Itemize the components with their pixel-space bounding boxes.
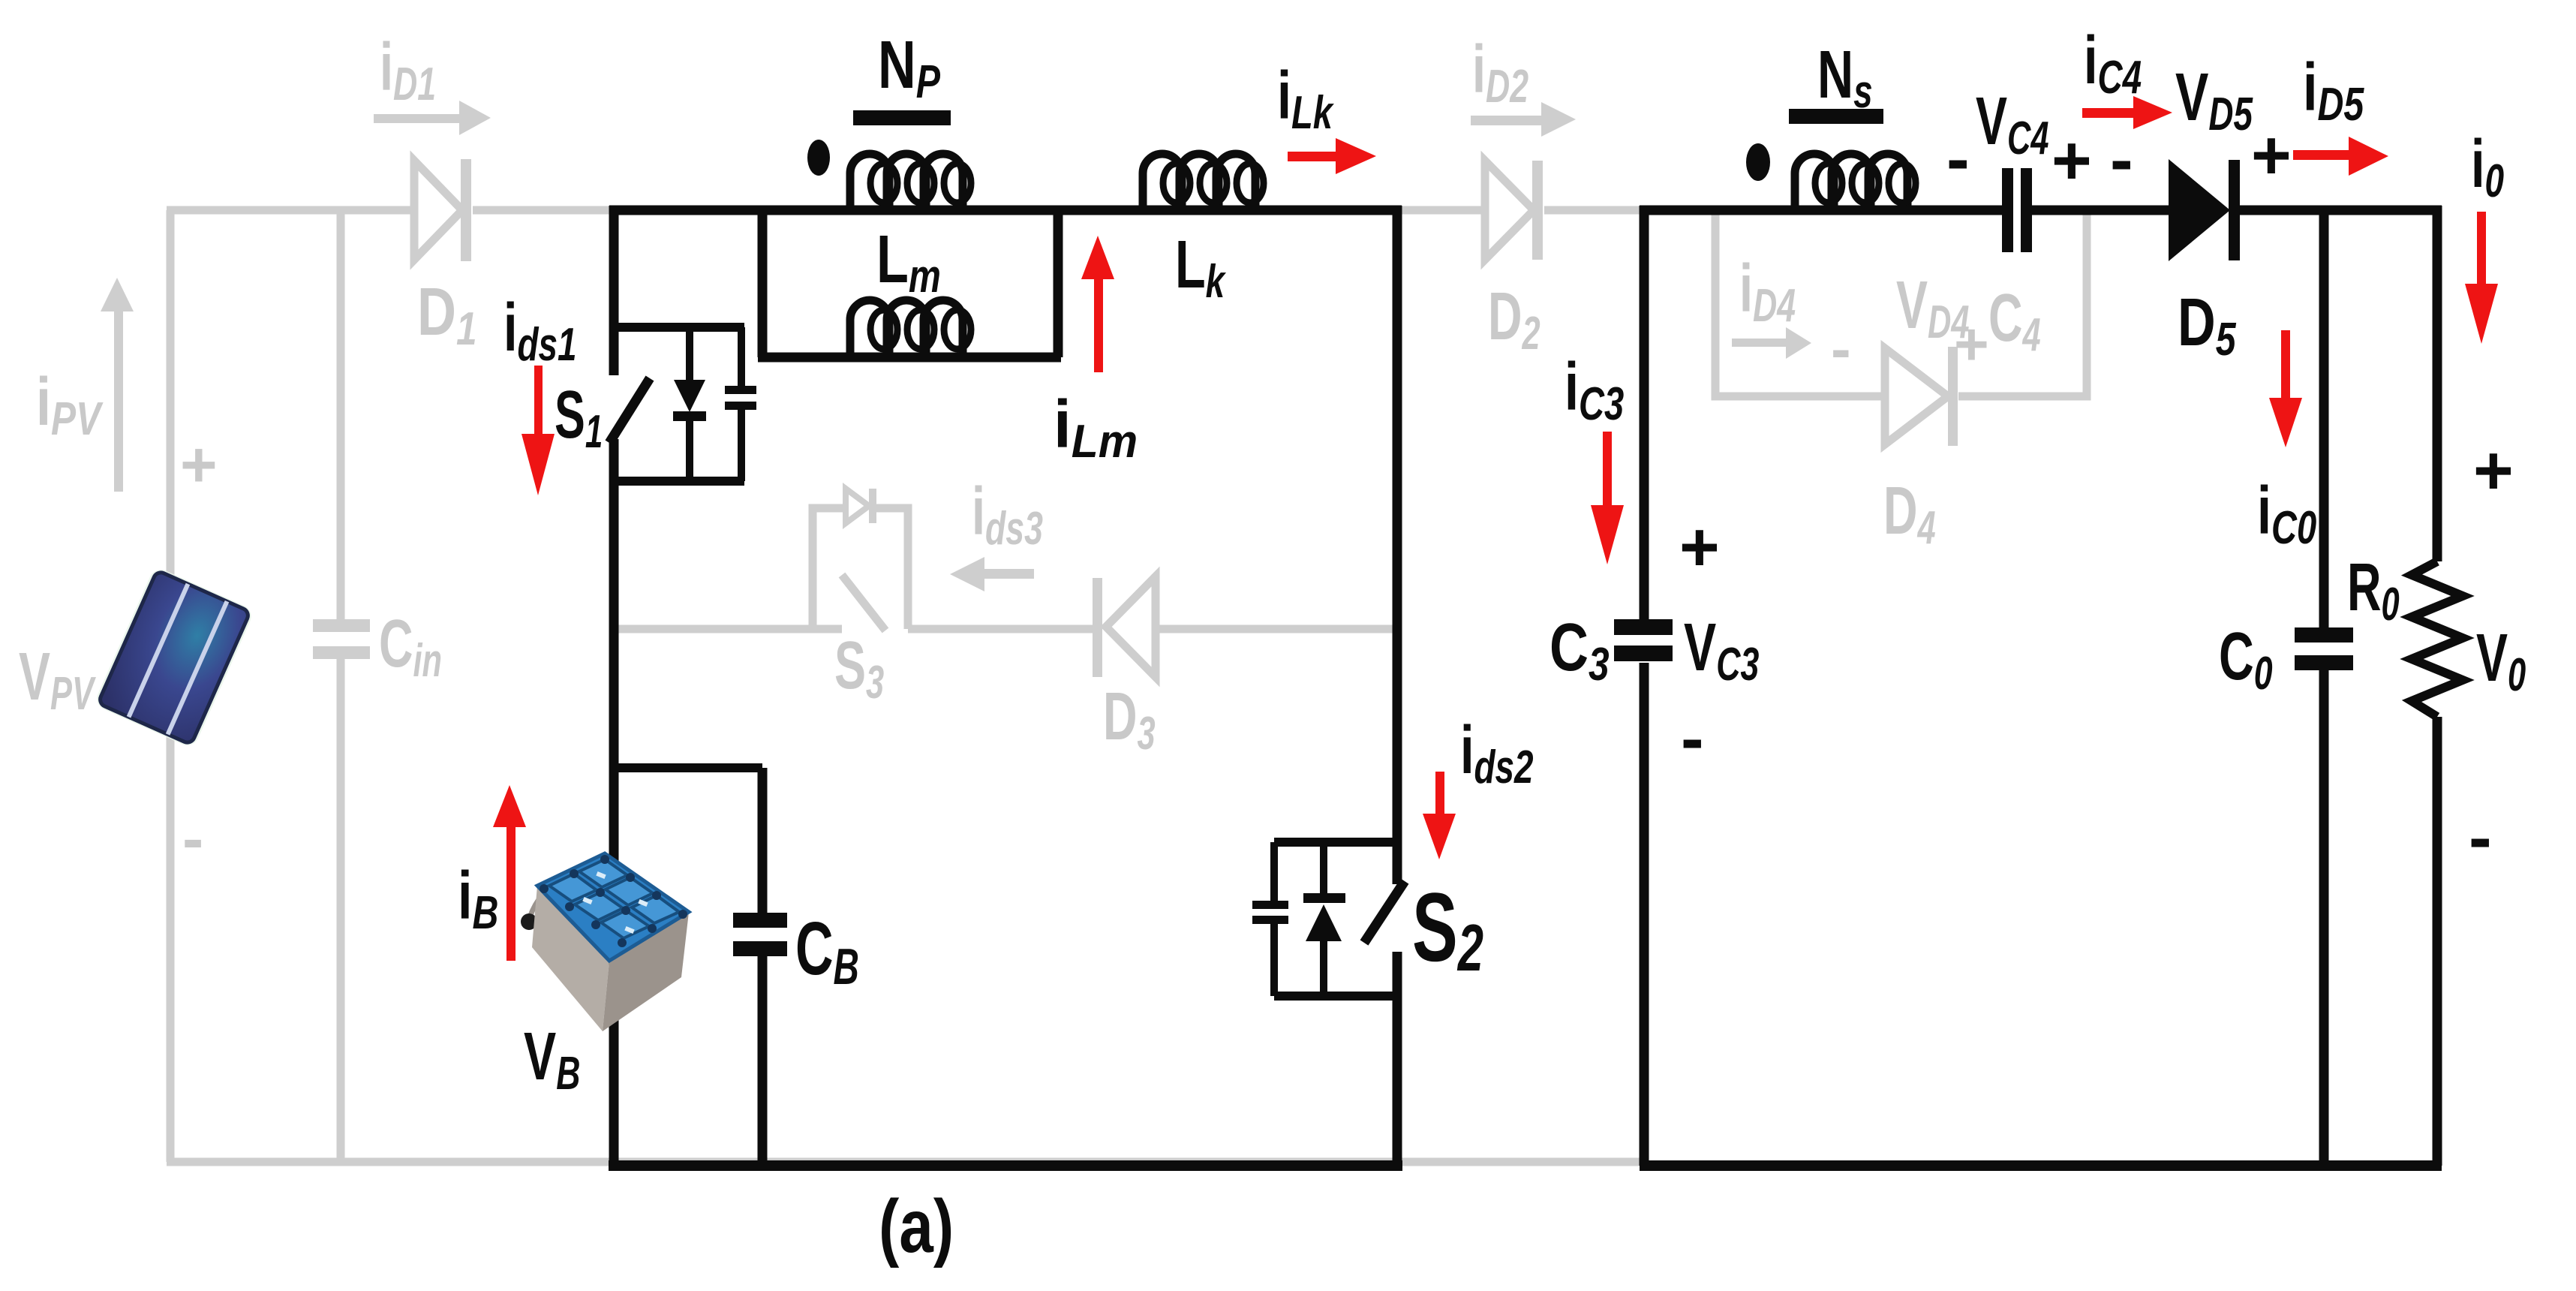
capacitor Cin plates [313, 619, 370, 659]
wire: output right rail bottom [2433, 717, 2442, 1166]
diode D5 [2169, 159, 2240, 261]
diode of S1 (body diode) [673, 327, 706, 481]
label VD5 [2175, 59, 2253, 140]
label io [2471, 125, 2504, 206]
wire: top gray link (D2 to C3 rail) [1544, 206, 1644, 215]
diode D3 (pointing left) [1093, 576, 1156, 677]
wire: S1 snubber box top and bottom bars [614, 327, 744, 481]
arrow: ids1 current arrow (red, down) [522, 366, 555, 495]
wire: gray bottom return bus [167, 1158, 1644, 1166]
capacitor C4 plates [2002, 168, 2032, 252]
label iD2 [1472, 32, 1528, 113]
diode of S3 (small, on box top bar) [846, 489, 876, 523]
wire: C3 rail top [1640, 206, 1649, 621]
label VC4 [1976, 84, 2048, 164]
label ids2 [1460, 712, 1534, 793]
label Lm [876, 222, 941, 302]
switch S1 blade [609, 378, 650, 443]
label CB [795, 907, 859, 995]
label Cin [379, 606, 442, 687]
wire: secondary bottom bus [1640, 1160, 2442, 1171]
label S3 [834, 628, 884, 709]
capacitor Co leads [2319, 210, 2329, 1166]
photo: PV panel (VPV source) [93, 566, 255, 749]
label S2 [1412, 872, 1483, 986]
label iLk [1277, 58, 1334, 139]
inductor Lk coil [1143, 154, 1264, 208]
svg-text:-: - [1681, 700, 1704, 777]
caption (a) [879, 1184, 954, 1268]
arrow: ico current arrow (red, down) [2269, 330, 2302, 447]
capacitor CB leads [758, 768, 768, 1166]
wire: secondary top bus (C3 to C4) [1640, 206, 2002, 215]
label Np [878, 28, 941, 108]
capacitor Co plates [2295, 627, 2353, 670]
resistor Ro [2412, 561, 2463, 717]
wire: middle gray bus (S3 to D3) [908, 625, 1094, 633]
capacitor Cin vertical leads [337, 210, 345, 1162]
svg-text:+: + [2251, 117, 2292, 194]
svg-text:+: + [2473, 432, 2514, 509]
transformer dot (Np) [807, 140, 830, 176]
label Vo [2476, 621, 2526, 701]
svg-text:+: + [2051, 122, 2092, 199]
photo: battery (VB source) [521, 853, 689, 1031]
wire: C3 rail bottom [1640, 663, 1649, 1166]
transformer core bar (Ns) [1789, 109, 1883, 124]
label iD1 [380, 29, 436, 110]
svg-text:+: + [1954, 311, 1989, 378]
label C4 (gray) [1988, 281, 2041, 361]
wire: Lm loop left leg [758, 210, 768, 357]
label VD4 [1896, 268, 1969, 348]
svg-text:-: - [1946, 121, 1970, 197]
arrow: iC3 current arrow (red, down) [1591, 432, 1624, 564]
inductor Ns winding [1795, 154, 1916, 208]
label iB [458, 859, 498, 939]
label VC3 [1684, 609, 1759, 691]
wire: S2 snubber box top and bottom bars [1274, 842, 1402, 996]
arrow: ids3 current arrow [950, 557, 1034, 591]
label Co [2219, 618, 2273, 700]
label iC3 [1565, 349, 1624, 430]
arrow: iLk current arrow (red, right) [1288, 138, 1376, 174]
label D2 [1488, 279, 1540, 360]
svg-text:-: - [2110, 122, 2133, 198]
svg-text:-: - [2469, 799, 2492, 876]
wire: battery loop bottom bus [609, 1160, 1402, 1171]
wire: output right rail top [2433, 206, 2442, 561]
svg-text:-: - [1831, 315, 1851, 382]
switch S2 blade [1364, 881, 1405, 943]
label iPV [36, 364, 104, 444]
svg-text:(a): (a) [879, 1184, 954, 1268]
inductor Np winding [850, 154, 971, 208]
label iD5 [2303, 50, 2364, 131]
label Ns [1817, 36, 1873, 117]
svg-text:-: - [182, 803, 203, 874]
label VB [524, 1019, 580, 1100]
svg-text:+: + [1679, 509, 1720, 585]
wire: secondary top bus (C4 to D5) [2032, 206, 2169, 215]
label D3 [1103, 679, 1156, 760]
arrow: iD4 current arrow [1732, 327, 1811, 359]
wire: top gray bus (PV to D1 anode) [167, 206, 414, 215]
wire: middle gray bus (D3 to primary right rail) [1156, 625, 1397, 633]
wire: PV left vertical rail [167, 210, 175, 1162]
wire: S1 drain lead [609, 206, 619, 375]
label VPV [19, 639, 96, 720]
label iC4 [2084, 22, 2142, 103]
label iD4 [1739, 251, 1796, 332]
switch S3 blade [842, 575, 885, 630]
wire: CB branch bar [614, 763, 762, 772]
wire: Lm loop bottom bar [758, 353, 1061, 363]
label ico [2257, 473, 2317, 554]
diode D4 [1885, 347, 1958, 446]
arrow: ids2 current arrow (red, down) [1423, 772, 1456, 859]
capacitor C3 plates [1614, 619, 1673, 661]
arrow: io current arrow (red, down) [2465, 212, 2498, 344]
wire: top gray link (primary rail to D2) [1397, 206, 1485, 215]
switch S3 snubber box [813, 508, 908, 629]
transformer dot (Ns) [1746, 143, 1770, 181]
wire: middle gray bus (S1 node to S3) [614, 625, 842, 633]
arrow: iD5 current arrow (red, right) [2293, 137, 2388, 176]
diode D1 [414, 159, 471, 261]
arrow: iPV current arrow [101, 278, 134, 492]
label D1 [417, 274, 477, 354]
capacitor of S1 snubber [725, 327, 756, 481]
inductor Lm coil [850, 300, 971, 354]
label Lk [1175, 226, 1226, 307]
label S1 [555, 377, 603, 458]
wire: top primary bus [609, 206, 1402, 215]
capacitor CB plates [733, 913, 787, 956]
diode D2 [1485, 161, 1543, 260]
arrow: iC4 current arrow (red, right) [2082, 96, 2172, 129]
label ids1 [503, 289, 577, 370]
diode of S2 (body diode, pointing up) [1303, 842, 1345, 996]
wire: secondary top bus (D5 to output corner) [2240, 206, 2442, 215]
wire: S1 source lead down to battery rail [609, 439, 619, 1166]
arrow: iD2 current arrow [1471, 102, 1576, 137]
label iLm [1054, 387, 1138, 467]
capacitor of S2 snubber [1252, 842, 1288, 996]
wire: top gray bus (D1 cathode to S1 node) [473, 206, 614, 215]
label Ro [2347, 550, 2400, 630]
wire: primary right rail (Lk node down to bottom bus) [1393, 206, 1402, 1166]
label D5 [2178, 285, 2237, 366]
label C3 [1550, 609, 1610, 690]
arrow: iLm current arrow (red, up) [1081, 236, 1114, 372]
wire: D4 snubber gray box [1715, 215, 2087, 396]
label ids3 [972, 474, 1043, 555]
arrow: iD1 current arrow [374, 101, 491, 135]
label D4 [1883, 474, 1936, 554]
wire: Lm loop right leg [1054, 210, 1063, 357]
svg-text:+: + [180, 429, 218, 501]
transformer core bar (Np) [853, 110, 951, 125]
arrow: iB current arrow (red, up) [493, 785, 526, 961]
